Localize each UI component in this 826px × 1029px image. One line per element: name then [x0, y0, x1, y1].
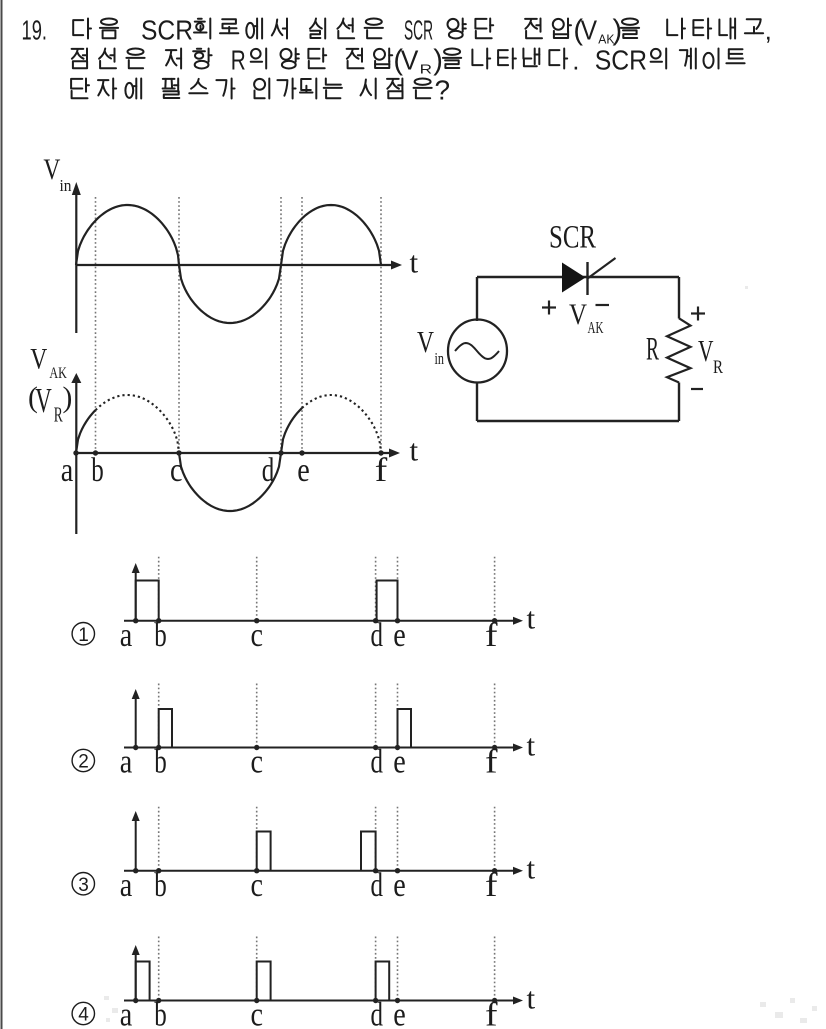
svg-text:SCR: SCR [404, 15, 433, 46]
svg-text:3: 3 [78, 875, 89, 896]
svg-text:c: c [250, 867, 263, 904]
svg-text:AK: AK [49, 365, 67, 382]
svg-text:d: d [262, 452, 275, 489]
svg-text:R: R [420, 62, 432, 77]
svg-text:V: V [581, 15, 598, 46]
svg-text:?: ? [435, 75, 451, 106]
svg-text:): ) [63, 382, 73, 414]
svg-text:.: . [572, 46, 579, 76]
svg-text:V: V [30, 343, 47, 376]
svg-text:V: V [698, 333, 714, 368]
svg-text:2: 2 [78, 752, 89, 773]
svg-text:e: e [393, 744, 406, 781]
svg-text:c: c [250, 744, 263, 781]
svg-text:t: t [527, 727, 536, 762]
svg-text:4: 4 [78, 1005, 89, 1026]
svg-text:t: t [527, 601, 536, 636]
svg-text:f: f [375, 452, 388, 489]
svg-text:b: b [154, 997, 167, 1029]
svg-text:d: d [371, 744, 384, 781]
svg-text:b: b [91, 452, 104, 489]
svg-text:V: V [417, 324, 434, 359]
svg-text:): ) [613, 15, 623, 47]
svg-text:f: f [485, 867, 498, 904]
svg-text:t: t [527, 851, 536, 886]
svg-text:): ) [433, 45, 443, 77]
svg-text:b: b [154, 744, 167, 781]
svg-text:1: 1 [78, 625, 89, 646]
svg-text:R: R [54, 403, 63, 427]
svg-text:a: a [61, 452, 74, 489]
svg-text:e: e [297, 452, 310, 489]
svg-text:V: V [569, 298, 587, 331]
svg-text:c: c [250, 997, 263, 1029]
svg-text:V: V [401, 45, 419, 76]
svg-text:e: e [393, 617, 406, 654]
svg-text:AK: AK [588, 318, 604, 337]
svg-text:SCR: SCR [141, 15, 193, 46]
svg-text:R: R [713, 357, 723, 378]
svg-text:d: d [371, 617, 384, 654]
svg-text:,: , [765, 16, 772, 46]
svg-text:SCR: SCR [595, 45, 647, 76]
svg-text:b: b [154, 867, 167, 904]
svg-text:in: in [435, 349, 445, 368]
svg-text:c: c [170, 452, 183, 489]
svg-text:c: c [250, 617, 263, 654]
svg-text:SCR: SCR [549, 220, 596, 256]
svg-text:a: a [120, 997, 133, 1029]
svg-text:f: f [485, 744, 498, 781]
svg-text:a: a [120, 744, 133, 781]
svg-text:b: b [154, 617, 167, 654]
svg-text:a: a [120, 867, 133, 904]
svg-text:e: e [393, 997, 406, 1029]
svg-text:V: V [35, 381, 52, 420]
svg-text:f: f [485, 997, 498, 1029]
svg-text:d: d [371, 997, 384, 1029]
svg-text:V: V [43, 153, 60, 186]
svg-text:in: in [60, 176, 72, 195]
svg-text:t: t [410, 245, 419, 280]
svg-text:e: e [393, 867, 406, 904]
svg-text:a: a [120, 617, 133, 654]
svg-text:19.: 19. [22, 15, 48, 46]
svg-text:d: d [371, 867, 384, 904]
svg-text:R: R [231, 45, 246, 76]
svg-text:t: t [410, 433, 419, 468]
svg-text:R: R [646, 332, 659, 368]
svg-text:t: t [527, 980, 536, 1015]
svg-text:f: f [485, 617, 498, 654]
